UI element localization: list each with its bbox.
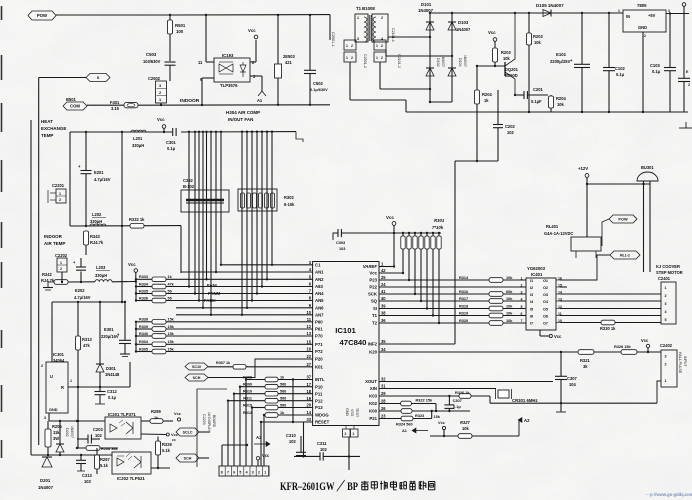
- svg-text:C2501-2: C2501-2: [363, 54, 367, 68]
- svg-text:103: 103: [84, 479, 92, 484]
- svg-text:1: 1: [357, 16, 359, 20]
- svg-text:47k: 47k: [83, 343, 91, 348]
- svg-text:560: 560: [280, 383, 286, 387]
- svg-text:0.1μF: 0.1μF: [531, 99, 542, 104]
- svg-text:P22: P22: [369, 285, 377, 290]
- svg-text:3k: 3k: [583, 364, 588, 369]
- svg-text:R317: R317: [459, 297, 468, 301]
- svg-text:IC101: IC101: [335, 326, 356, 335]
- svg-text:26: 26: [381, 406, 386, 411]
- svg-text:···p·//www.go-gddq.com: ···p·//www.go-gddq.com: [646, 492, 692, 497]
- svg-text:16: 16: [306, 347, 311, 352]
- svg-text:1N4007: 1N4007: [418, 8, 434, 13]
- svg-text:330μH: 330μH: [95, 273, 107, 278]
- svg-text:2: 2: [345, 432, 347, 436]
- svg-text:GND: GND: [345, 408, 349, 416]
- svg-text:330μH: 330μH: [132, 143, 144, 148]
- svg-text:A1: A1: [257, 98, 263, 103]
- svg-text:C502: C502: [313, 81, 323, 86]
- svg-text:102: 102: [320, 447, 328, 452]
- svg-text:2: 2: [351, 56, 353, 60]
- svg-text:O3: O3: [543, 293, 548, 297]
- svg-text:L203: L203: [96, 265, 106, 270]
- svg-text:R311: R311: [243, 397, 252, 401]
- svg-text:10k: 10k: [503, 56, 511, 61]
- svg-text:24: 24: [381, 282, 386, 287]
- svg-text:1: 1: [521, 276, 523, 280]
- svg-text:R208 36k: R208 36k: [101, 447, 119, 451]
- svg-text:10k: 10k: [506, 311, 513, 315]
- svg-text:A2: A2: [256, 435, 262, 440]
- svg-text:2: 2: [60, 267, 62, 271]
- svg-text:I7: I7: [530, 321, 533, 325]
- svg-text:HALL PULSE: HALL PULSE: [678, 352, 682, 374]
- svg-text:VSS: VSS: [350, 409, 354, 417]
- svg-text:R324 560: R324 560: [396, 423, 413, 427]
- svg-text:K03: K03: [369, 394, 377, 399]
- svg-text:3: 3: [665, 355, 667, 359]
- svg-text:POW: POW: [618, 218, 628, 222]
- svg-text:421: 421: [285, 60, 293, 65]
- svg-text:11: 11: [198, 60, 203, 65]
- svg-text:60k: 60k: [506, 290, 513, 294]
- svg-text:R312: R312: [243, 411, 252, 415]
- svg-text:1N4007: 1N4007: [456, 27, 471, 32]
- svg-text:Vcc: Vcc: [171, 433, 179, 437]
- svg-text:K01: K01: [315, 365, 323, 370]
- svg-text:C307: C307: [453, 399, 462, 403]
- svg-text:330μH: 330μH: [90, 219, 102, 224]
- svg-text:R323: R323: [415, 414, 424, 418]
- svg-text:CR301 6MHz: CR301 6MHz: [512, 398, 538, 403]
- svg-text:P72: P72: [315, 349, 323, 354]
- svg-text:P10: P10: [315, 384, 323, 389]
- svg-text:Vcc: Vcc: [248, 28, 256, 33]
- svg-text:15k: 15k: [434, 415, 441, 419]
- svg-text:1: 1: [353, 432, 355, 436]
- svg-text:5: 5: [239, 471, 241, 475]
- svg-text:3: 3: [159, 84, 161, 88]
- svg-text:C303: C303: [336, 241, 345, 245]
- svg-text:D105 1N4007: D105 1N4007: [536, 3, 564, 8]
- svg-text:DQ201: DQ201: [505, 67, 519, 72]
- svg-text:C307: C307: [567, 376, 577, 381]
- svg-text:cc: cc: [172, 438, 176, 442]
- svg-text:6: 6: [521, 312, 523, 316]
- svg-text:10k: 10k: [534, 40, 542, 45]
- svg-text:AN1: AN1: [315, 270, 324, 275]
- svg-text:0.1μ: 0.1μ: [167, 146, 176, 151]
- svg-text:102: 102: [507, 130, 515, 135]
- svg-text:C103: C103: [650, 63, 660, 68]
- svg-text:AN5: AN5: [315, 298, 324, 303]
- svg-text:C503: C503: [146, 52, 157, 57]
- svg-text:2: 2: [521, 283, 523, 287]
- svg-text:R321: R321: [580, 358, 590, 363]
- svg-text:R335: R335: [139, 289, 148, 293]
- svg-text:R340: R340: [139, 332, 148, 336]
- svg-text:0.1μ: 0.1μ: [652, 69, 661, 74]
- svg-text:4.7μ/16V: 4.7μ/16V: [94, 177, 111, 182]
- svg-text:R328 15k: R328 15k: [614, 345, 632, 349]
- svg-text:R327: R327: [460, 420, 470, 425]
- svg-text:SI: SI: [373, 306, 377, 311]
- svg-text:40: 40: [381, 296, 386, 301]
- svg-text:STEP MOTOR: STEP MOTOR: [656, 270, 683, 275]
- svg-text:560: 560: [280, 390, 286, 394]
- svg-text:U: U: [50, 374, 53, 379]
- svg-text:2200μ/25V: 2200μ/25V: [550, 59, 571, 64]
- svg-text:5.1k: 5.1k: [100, 463, 109, 468]
- svg-text:K02: K02: [369, 401, 377, 406]
- svg-text:IN/OUT FAN: IN/OUT FAN: [228, 117, 253, 122]
- svg-text:19: 19: [306, 396, 311, 401]
- svg-text:14: 14: [306, 410, 311, 415]
- svg-text:1: 1: [59, 192, 61, 196]
- svg-text:2: 2: [41, 364, 43, 368]
- svg-text:36: 36: [381, 318, 386, 323]
- svg-text:P23: P23: [369, 278, 377, 283]
- svg-text:H304 AIR COMP: H304 AIR COMP: [226, 110, 260, 115]
- svg-text:E202: E202: [75, 288, 85, 293]
- svg-text:3: 3: [357, 37, 359, 41]
- svg-text:Vcc: Vcc: [128, 262, 136, 267]
- svg-text:R320: R320: [459, 319, 468, 323]
- svg-text:D104: D104: [458, 58, 462, 67]
- svg-text:TEMP: TEMP: [41, 133, 53, 138]
- svg-text:SCH: SCH: [193, 376, 201, 380]
- svg-text:T1: T1: [372, 313, 378, 318]
- svg-text:P21: P21: [369, 416, 377, 421]
- svg-text:AIR TEMP: AIR TEMP: [44, 241, 65, 246]
- svg-text:I3: I3: [530, 293, 533, 297]
- svg-text:20: 20: [306, 403, 311, 408]
- svg-text:R204: R204: [556, 96, 566, 101]
- svg-text:18: 18: [306, 389, 311, 394]
- svg-text:560: 560: [280, 403, 286, 407]
- svg-text:L202: L202: [92, 212, 102, 217]
- svg-text:O1: O1: [543, 279, 548, 283]
- svg-text:E101: E101: [556, 52, 567, 57]
- svg-text:C1: C1: [315, 263, 321, 268]
- svg-text:P20: P20: [315, 357, 323, 362]
- svg-text:13: 13: [306, 331, 311, 336]
- svg-text:10k: 10k: [506, 304, 513, 308]
- svg-text:TLP3576: TLP3576: [220, 83, 238, 88]
- svg-text:R343: R343: [90, 234, 100, 239]
- svg-text:8: 8: [221, 471, 223, 475]
- svg-text:103/630V: 103/630V: [143, 59, 161, 64]
- svg-text:Vcc: Vcc: [488, 30, 496, 35]
- svg-text:2: 2: [258, 471, 260, 475]
- svg-text:0.1μ: 0.1μ: [108, 395, 117, 400]
- svg-text:39: 39: [381, 304, 386, 309]
- svg-text:1: 1: [264, 471, 266, 475]
- svg-text:1: 1: [346, 44, 348, 48]
- svg-text:15: 15: [306, 340, 311, 345]
- svg-text:R301: R301: [434, 218, 445, 223]
- svg-text:Vcc: Vcc: [157, 117, 165, 122]
- svg-text:R304: R304: [139, 340, 149, 344]
- svg-text:34: 34: [381, 347, 386, 352]
- svg-text:Vcc: Vcc: [554, 334, 562, 339]
- svg-text:D301: D301: [106, 366, 116, 371]
- svg-text:YG62003: YG62003: [527, 266, 546, 271]
- svg-text:56: 56: [168, 296, 172, 300]
- svg-text:3: 3: [665, 302, 667, 306]
- svg-text:R319: R319: [459, 311, 468, 315]
- svg-text:P60: P60: [315, 320, 323, 325]
- svg-text:Vcc: Vcc: [641, 338, 649, 343]
- svg-text:2: 2: [351, 44, 353, 48]
- svg-text:15k: 15k: [168, 347, 175, 351]
- svg-text:R332 1k: R332 1k: [129, 217, 145, 222]
- svg-text:I6: I6: [530, 314, 533, 318]
- svg-text:P11: P11: [315, 391, 323, 396]
- svg-text:K20: K20: [369, 350, 377, 355]
- svg-text:100: 100: [176, 29, 184, 34]
- svg-text:0.1μ: 0.1μ: [616, 72, 625, 77]
- svg-text:R302: R302: [284, 195, 294, 200]
- svg-text:4: 4: [246, 471, 248, 475]
- svg-text:IC193: IC193: [222, 53, 234, 58]
- svg-text:R315: R315: [243, 403, 252, 407]
- svg-text:15k: 15k: [168, 332, 175, 336]
- svg-text:6-10k: 6-10k: [284, 202, 295, 207]
- svg-text:R342: R342: [42, 272, 52, 277]
- svg-text:GND: GND: [638, 25, 647, 30]
- svg-text:3: 3: [521, 290, 523, 294]
- svg-text:E201: E201: [94, 170, 104, 175]
- svg-text:TEST: TEST: [355, 408, 359, 418]
- svg-text:C313: C313: [82, 473, 92, 478]
- svg-text:2: 2: [688, 83, 690, 87]
- svg-text:0.1μ: 0.1μ: [453, 405, 461, 409]
- svg-text:P61: P61: [315, 327, 323, 332]
- svg-text:5: 5: [521, 305, 523, 309]
- svg-text:D201: D201: [40, 478, 51, 483]
- svg-text:104: 104: [569, 382, 577, 387]
- svg-text:IC202 TLP521: IC202 TLP521: [117, 476, 145, 481]
- svg-text:23: 23: [381, 414, 386, 419]
- svg-text:A1: A1: [402, 429, 408, 433]
- svg-text:IN: IN: [626, 14, 630, 19]
- svg-text:I5: I5: [530, 307, 533, 311]
- svg-text:C201: C201: [533, 87, 543, 92]
- svg-text:1: 1: [346, 56, 348, 60]
- svg-text:IC201 TLP371: IC201 TLP371: [108, 412, 136, 417]
- svg-text:1: 1: [665, 286, 667, 290]
- svg-text:AN2: AN2: [315, 277, 324, 282]
- svg-text:47k: 47k: [168, 282, 175, 286]
- svg-text:O7: O7: [543, 321, 548, 325]
- svg-text:R307 1k: R307 1k: [216, 361, 231, 365]
- svg-text:Vcc: Vcc: [438, 421, 446, 425]
- svg-text:R329: R329: [162, 442, 172, 447]
- svg-text:10k: 10k: [506, 319, 513, 323]
- svg-text:P13: P13: [315, 405, 323, 410]
- svg-text:1: 1: [60, 261, 62, 265]
- svg-text:INDOOR: INDOOR: [180, 98, 200, 104]
- svg-text:31: 31: [381, 384, 386, 389]
- svg-text:2: 2: [381, 44, 383, 48]
- svg-text:3: 3: [44, 416, 46, 420]
- svg-text:4: 4: [521, 297, 523, 301]
- svg-text:R339: R339: [139, 325, 148, 329]
- svg-text:C301: C301: [166, 140, 176, 145]
- svg-text:C2101-1: C2101-1: [391, 28, 395, 42]
- svg-text:2: 2: [59, 198, 61, 202]
- svg-text:E301: E301: [104, 327, 114, 332]
- svg-text:3.15: 3.15: [111, 106, 120, 111]
- svg-text:T2: T2: [372, 321, 378, 326]
- svg-text:10k: 10k: [557, 102, 565, 107]
- svg-text:BOARD: BOARD: [212, 415, 216, 428]
- svg-text:2: 2: [159, 91, 161, 95]
- svg-text:25: 25: [381, 275, 386, 280]
- svg-text:B-102: B-102: [183, 184, 195, 189]
- svg-text:R314: R314: [459, 276, 469, 280]
- svg-text:C2402: C2402: [660, 343, 673, 348]
- svg-text:2: 2: [381, 56, 383, 60]
- svg-text:2: 2: [644, 34, 646, 38]
- svg-text:D103: D103: [458, 20, 469, 25]
- svg-text:2: 2: [665, 294, 667, 298]
- svg-text:R501: R501: [175, 23, 186, 28]
- svg-text:R338: R338: [139, 318, 148, 322]
- svg-text:C302: C302: [183, 178, 193, 183]
- svg-text:R205: R205: [52, 424, 62, 429]
- svg-text:R: R: [61, 385, 64, 390]
- svg-text:5: 5: [665, 318, 667, 322]
- svg-text:102: 102: [289, 439, 297, 444]
- svg-text:R318: R318: [459, 304, 469, 308]
- svg-text:42: 42: [381, 268, 386, 273]
- svg-text:10k: 10k: [506, 276, 513, 280]
- svg-text:R316: R316: [459, 290, 468, 294]
- svg-text:R322 15k: R322 15k: [416, 399, 434, 403]
- svg-text:T1 B1008: T1 B1008: [356, 6, 375, 11]
- svg-text:15k: 15k: [168, 318, 175, 322]
- svg-text:P70: P70: [315, 334, 323, 339]
- svg-text:+5V: +5V: [648, 13, 656, 18]
- svg-text:IC401: IC401: [531, 272, 543, 277]
- svg-text:FANL: FANL: [207, 283, 219, 288]
- svg-text:28: 28: [381, 399, 386, 404]
- svg-text:56: 56: [168, 289, 172, 293]
- svg-text:AN4: AN4: [315, 291, 324, 296]
- svg-text:RL401: RL401: [546, 224, 559, 229]
- svg-text:15k: 15k: [168, 325, 175, 329]
- svg-text:C2203: C2203: [202, 414, 206, 425]
- svg-text:11k: 11k: [53, 430, 60, 435]
- svg-text:INDOOR: INDOOR: [44, 234, 63, 239]
- svg-text:3: 3: [252, 471, 254, 475]
- svg-text:2: 2: [381, 16, 383, 20]
- svg-text:R305: R305: [139, 347, 148, 351]
- svg-text:I1: I1: [530, 279, 533, 283]
- svg-text:3W: 3W: [53, 436, 59, 441]
- svg-text:VAREF: VAREF: [363, 264, 378, 269]
- svg-text:XOUT: XOUT: [365, 379, 377, 384]
- svg-text:S: S: [97, 76, 100, 80]
- svg-text:R308: R308: [243, 375, 252, 379]
- svg-text:C310: C310: [286, 433, 296, 438]
- svg-text:38: 38: [381, 311, 386, 316]
- svg-text:I2: I2: [530, 286, 533, 290]
- svg-text:Vcc: Vcc: [262, 453, 270, 458]
- svg-text:C202: C202: [505, 124, 515, 129]
- svg-text:INPUT: INPUT: [683, 356, 687, 367]
- svg-text:P71: P71: [315, 342, 323, 347]
- svg-text:C312: C312: [107, 389, 117, 394]
- svg-text:0.1μ/630V: 0.1μ/630V: [310, 88, 328, 92]
- svg-text:1N4007: 1N4007: [38, 485, 54, 490]
- svg-text:7*10k: 7*10k: [432, 225, 444, 230]
- svg-text:R203: R203: [533, 34, 543, 39]
- svg-text:R267: R267: [100, 457, 110, 462]
- svg-text:SCLC: SCLC: [183, 431, 193, 435]
- svg-text:INTL: INTL: [315, 377, 325, 382]
- svg-text:1: 1: [376, 44, 378, 48]
- svg-text:D102: D102: [436, 58, 440, 67]
- svg-text:C311: C311: [317, 441, 327, 446]
- svg-text:11: 11: [307, 317, 312, 322]
- svg-text:BU301: BU301: [641, 165, 654, 170]
- svg-text:INF2: INF2: [368, 342, 378, 347]
- svg-text:C2201: C2201: [52, 183, 65, 188]
- svg-text:29: 29: [381, 391, 386, 396]
- svg-text:10k: 10k: [506, 297, 513, 301]
- svg-text:1N4007: 1N4007: [70, 426, 74, 438]
- svg-text:SQ: SQ: [371, 299, 378, 304]
- svg-text:P12: P12: [315, 398, 323, 403]
- svg-text:D202: D202: [65, 428, 69, 437]
- svg-text:HEAT: HEAT: [41, 119, 53, 124]
- svg-text:32: 32: [381, 377, 386, 382]
- svg-text:5.1k: 5.1k: [162, 448, 171, 453]
- svg-text:KJ COOVER: KJ COOVER: [656, 264, 680, 269]
- svg-text:R310: R310: [243, 390, 252, 394]
- svg-text:SC10: SC10: [192, 365, 201, 369]
- svg-text:EXCHANGE: EXCHANGE: [41, 126, 66, 131]
- svg-text:R309: R309: [243, 383, 252, 387]
- svg-text:7: 7: [521, 319, 523, 323]
- svg-text:17: 17: [306, 382, 311, 387]
- svg-text:37: 37: [306, 375, 311, 380]
- svg-text:1U DISPLAY: 1U DISPLAY: [207, 412, 211, 432]
- svg-text:560: 560: [280, 397, 286, 401]
- svg-text:C2401: C2401: [658, 276, 671, 281]
- svg-text:1: 1: [618, 9, 620, 13]
- svg-text:D101: D101: [421, 2, 432, 7]
- svg-text:F401: F401: [110, 100, 120, 105]
- svg-text:41: 41: [381, 289, 386, 294]
- svg-text:C2202: C2202: [55, 253, 68, 258]
- svg-text:R203: R203: [501, 50, 511, 55]
- svg-text:R330 1k: R330 1k: [600, 326, 616, 331]
- svg-text:2E503: 2E503: [283, 54, 295, 59]
- svg-text:O2: O2: [543, 286, 548, 290]
- svg-text:B501: B501: [66, 97, 76, 102]
- svg-text:1N4148: 1N4148: [105, 372, 120, 377]
- svg-text:R204: R204: [482, 92, 492, 97]
- svg-text:R334: R334: [139, 282, 149, 286]
- svg-text:103: 103: [339, 247, 345, 251]
- svg-text:GND: GND: [49, 408, 58, 412]
- svg-text:7805: 7805: [637, 3, 647, 8]
- svg-text:10: 10: [306, 310, 311, 315]
